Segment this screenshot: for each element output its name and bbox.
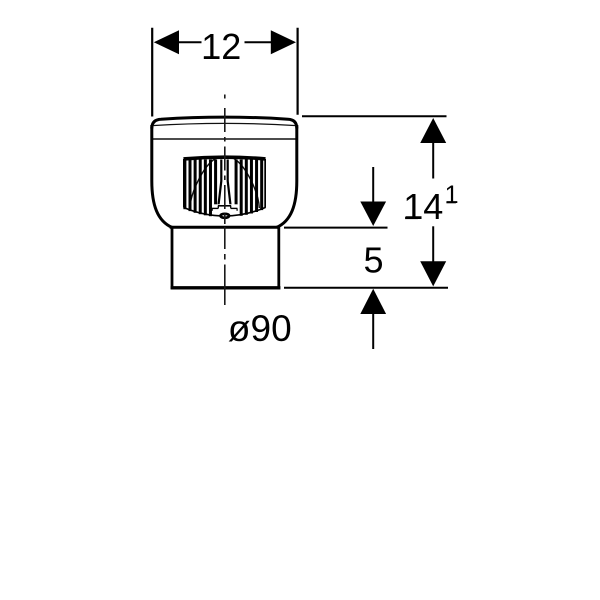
strainer slot bars (183, 160, 263, 217)
svg-text:14: 14 (403, 186, 443, 227)
svg-text:ø90: ø90 (228, 308, 292, 349)
dome under strainer (190, 159, 259, 209)
funnel left wall (218, 160, 221, 206)
dim 14: dimension line lower (432, 226, 434, 262)
body right side (277, 125, 297, 227)
dim 12: dimension line (178, 41, 202, 43)
svg-text:5: 5 (363, 240, 383, 281)
shoulder line (170, 226, 280, 229)
rim line (152, 138, 297, 140)
hub flange clearing (white) (212, 204, 238, 214)
dim 12: right arrow (271, 30, 296, 54)
dim 5: upper line (372, 167, 374, 203)
dim 12: left arrow (154, 30, 179, 54)
svg-text:1: 1 (445, 181, 459, 209)
funnel right wall (228, 160, 231, 206)
funnel interior (white) (219, 160, 229, 206)
dim 14: foot of superscript 1 (446, 202, 456, 204)
dim 14: bottom extension line (284, 287, 448, 289)
dim 14: dimension line upper (432, 142, 434, 179)
strainer right edge bar (264, 160, 266, 209)
hub flange right (231, 207, 238, 209)
hub plate (218, 205, 231, 207)
strainer side edges (183, 159, 185, 208)
pipe bottom (171, 286, 281, 289)
hub step left (217, 206, 219, 209)
dim 12: right extension line (297, 28, 299, 115)
pipe right side (277, 227, 280, 289)
lid lower edge (152, 123, 296, 125)
strainer bottom arc (184, 208, 266, 217)
pipe left side (171, 227, 174, 289)
dim 14: down arrow (420, 261, 446, 286)
screw ellipse (221, 214, 230, 218)
svg-text:12: 12 (201, 26, 241, 67)
hub flange edge left (211, 208, 213, 210)
dim 5: up arrow (360, 289, 386, 314)
hub step right (230, 206, 232, 209)
hub flange left (212, 207, 218, 209)
dim 5: down arrow (360, 202, 386, 227)
dim 5: middle extension line (284, 227, 388, 229)
dim 14: top extension line (302, 115, 447, 117)
strainer top band (184, 157, 266, 159)
dim 12: foot of digit 1 (204, 56, 217, 59)
dim 5: lower line (372, 313, 374, 349)
centerline (224, 95, 226, 306)
body left side (152, 125, 172, 227)
body top arc (152, 117, 297, 128)
hub flange edge right (236, 208, 238, 210)
dim 14: foot of digit 1 (405, 217, 418, 220)
dim 12: left extension line (151, 28, 153, 117)
dim 14: up arrow (420, 118, 446, 143)
